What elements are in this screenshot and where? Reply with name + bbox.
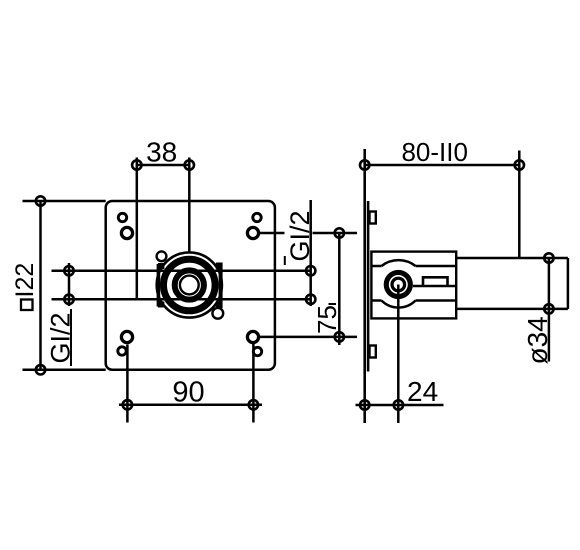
svg-text:38: 38 [146, 136, 177, 167]
svg-text:GI/2: GI/2 [46, 312, 76, 363]
svg-text:90: 90 [172, 377, 204, 409]
svg-text:GI/2: GI/2 [285, 210, 315, 261]
svg-text:80-II0: 80-II0 [401, 137, 468, 167]
svg-text:I22: I22 [11, 263, 39, 298]
svg-text:ø34: ø34 [522, 316, 553, 364]
svg-text:75: 75 [312, 305, 342, 334]
svg-text:24: 24 [407, 376, 438, 407]
